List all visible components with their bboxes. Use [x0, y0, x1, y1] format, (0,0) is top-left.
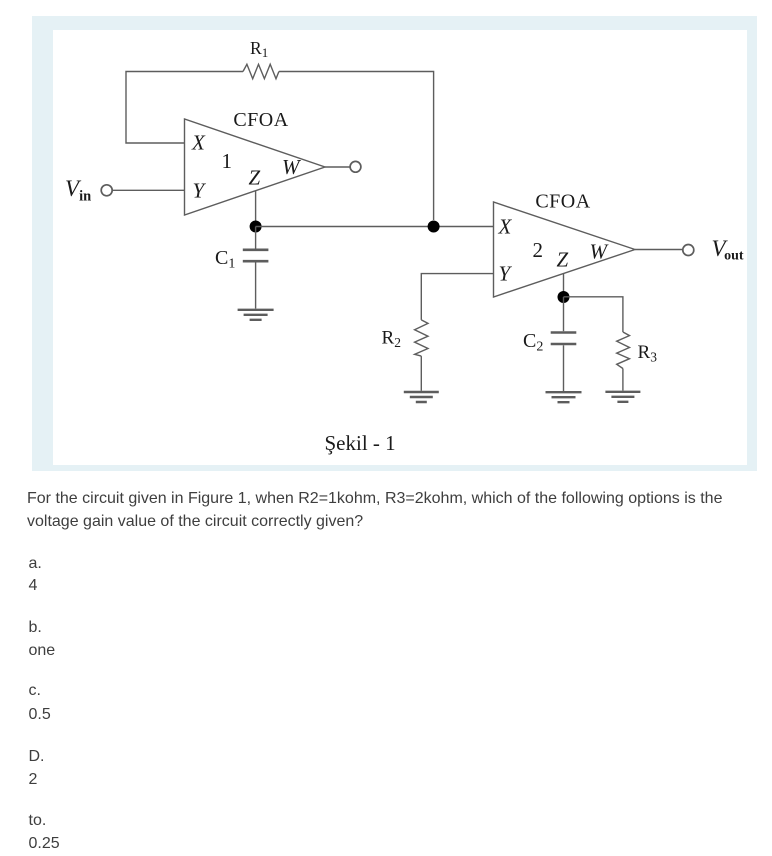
- wire W2 to Vout: [635, 249, 683, 251]
- option to label: [29, 811, 47, 831]
- resistor R3: [617, 332, 630, 369]
- option a value: [29, 576, 38, 596]
- option c value: [29, 705, 51, 725]
- junction node B: [428, 221, 440, 233]
- op-amp U2 CFOA 2 triangle: [494, 202, 636, 297]
- capacitor C1 bottom lead: [255, 263, 257, 309]
- wire from X1 input up-left to R1: [126, 72, 243, 144]
- svg-text:CFOA: CFOA: [535, 191, 590, 213]
- svg-text:W: W: [590, 240, 610, 264]
- svg-text:C2: C2: [523, 330, 543, 355]
- svg-text:Vout: Vout: [712, 236, 744, 264]
- wire from R1 right to node B vertical: [279, 72, 434, 221]
- svg-text:R1: R1: [250, 38, 268, 60]
- question text line 2: [27, 512, 363, 532]
- resistor R1: [243, 64, 279, 78]
- ground below R2: [404, 392, 439, 402]
- terminal W1 open circle: [350, 161, 361, 172]
- junction node C: [558, 291, 570, 303]
- option b label: [29, 618, 42, 638]
- svg-text:Y: Y: [193, 179, 207, 203]
- capacitor C2 bottom lead: [563, 345, 565, 391]
- svg-text:2: 2: [533, 238, 544, 262]
- figure panel cyan background: [32, 16, 757, 471]
- svg-text:X: X: [191, 131, 206, 155]
- wire Z1 pin down to node A: [255, 191, 257, 227]
- ground below R3: [605, 392, 640, 402]
- option D value: [29, 770, 38, 790]
- capacitor C1 top lead: [255, 227, 257, 249]
- wire node C to R3: [564, 297, 623, 332]
- wire node A to X2: [256, 226, 494, 228]
- wire Vin to Y1: [112, 189, 185, 191]
- svg-text:Vin: Vin: [65, 176, 91, 205]
- svg-text:C1: C1: [215, 247, 235, 272]
- wire Y2 to R2: [421, 274, 493, 320]
- terminal Vin open circle: [101, 185, 112, 196]
- capacitor C2 plates: [551, 333, 577, 345]
- resistor R2: [415, 320, 428, 356]
- wire R3 to ground: [622, 369, 624, 391]
- svg-text:Z: Z: [249, 166, 261, 190]
- svg-text:X: X: [498, 215, 513, 239]
- figure white inner area: [53, 30, 747, 465]
- svg-text:R3: R3: [638, 342, 658, 365]
- svg-text:1: 1: [222, 149, 233, 173]
- wire R2 to ground: [420, 356, 422, 391]
- wire W1 output: [325, 166, 350, 168]
- svg-text:Şekil - 1: Şekil - 1: [325, 431, 396, 455]
- option a label: [29, 554, 42, 574]
- wire Z2 pin down to node C: [563, 274, 565, 297]
- option b value: [29, 641, 56, 661]
- svg-text:R2: R2: [382, 328, 401, 351]
- terminal Vout open circle: [683, 245, 694, 256]
- svg-text:CFOA: CFOA: [233, 109, 288, 131]
- option c label: [29, 681, 41, 701]
- question text line 1: [27, 489, 722, 509]
- svg-text:Z: Z: [557, 248, 569, 272]
- junction node A: [250, 221, 262, 233]
- svg-text:Y: Y: [499, 262, 513, 286]
- option D label: [29, 747, 45, 767]
- svg-text:W: W: [282, 155, 302, 179]
- op-amp U1 CFOA 1 triangle: [185, 119, 326, 215]
- ground below C2: [546, 392, 582, 402]
- capacitor C2 top lead: [563, 297, 565, 331]
- ground below C1: [238, 310, 274, 320]
- capacitor C1 plates: [243, 250, 269, 261]
- option to value: [29, 834, 60, 854]
